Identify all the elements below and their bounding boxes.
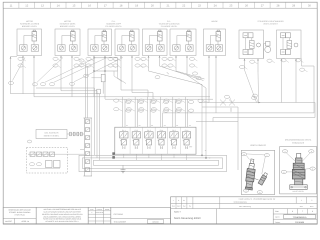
svg-text:Name 7: Name 7 [174,210,182,213]
svg-text:A6: A6 [189,124,191,127]
wire from G1 left valve down [22,56,24,94]
junction drop right [205,103,207,158]
svg-text:11: 11 [10,5,13,8]
svg-text:WINDE: WINDE [211,20,218,23]
balloon node 18 [135,57,143,61]
svg-text:T2: T2 [135,147,137,150]
svg-text:ZYLINDER VENTIL: ZYLINDER VENTIL [161,25,178,28]
label above groups at x=113.5 [105,20,122,28]
bus crossing marks [220,100,226,106]
balloon node 2 [18,64,26,68]
bank tank stubs [123,154,125,158]
balloon node 16 [113,57,121,61]
svg-text:Datum: Datum [275,221,281,224]
svg-text:P1.6: P1.6 [185,129,189,132]
bus line B6 right main [199,103,315,122]
bank section 2 riser pair [135,97,137,127]
balloon node 35 [300,68,308,72]
wire from G4 right valve down [131,56,133,93]
wire from G5 right valve down [159,56,161,67]
svg-text:VENTIL EINHEIT: VENTIL EINHEIT [263,22,278,25]
svg-text:Na: Na [189,205,191,208]
balloon node 13 [86,64,94,68]
bank section 6 riser pair [185,97,187,127]
balloon node 38 [224,95,229,98]
svg-text:1: 1 [301,199,302,202]
G4 right bend to feed bus [132,93,153,100]
bus line B5 manifold feed lower [105,98,213,100]
svg-text:12: 12 [25,5,28,8]
junction drop left [201,103,203,156]
svg-text:25: 25 [229,5,232,8]
svg-text:2: 2 [311,199,312,202]
svg-text:Dat: Dat [183,205,186,208]
svg-text:29: 29 [292,5,295,8]
svg-text:Bez. Benennung: Bez. Benennung [239,205,251,208]
svg-text:T/254036589-A: T/254036589-A [293,216,307,219]
svg-text:4x: 4x [183,199,185,202]
svg-text:3: 3 [312,210,313,213]
wire G1 auxiliary left drop [10,57,17,94]
svg-text:T2: T2 [209,157,211,160]
ruler strip [3,2,317,8]
fitting chain [67,132,84,136]
svg-text:DATUM: DATUM [97,208,103,211]
svg-text:4: 4 [246,190,247,193]
svg-text:Zust: Zust [172,205,176,208]
wire from G1 right valve down [33,56,35,97]
wire from G2 right valve down [71,56,73,97]
svg-text:MOTOR: MOTOR [26,20,34,23]
svg-text:EINHEIT VENTIL: EINHEIT VENTIL [44,135,60,138]
svg-text:POS: POS [90,208,93,211]
balloon node 31 [250,60,258,64]
bank section 4 riser pair [160,97,162,127]
bottom-left title box [3,207,36,224]
svg-text:c: c [173,200,174,202]
balloon node 8 [53,57,61,61]
diagonal wire G5-right to junction [160,66,204,81]
balloon node 10 [74,57,82,61]
svg-text:A4: A4 [164,124,166,127]
balloon node 5 [40,83,45,86]
svg-text:MASZST.: MASZST. [5,220,13,223]
svg-text:A2: A2 [139,124,141,127]
svg-text:P1.3: P1.3 [147,129,151,132]
svg-text:14: 14 [57,5,60,8]
svg-text:16: 16 [88,5,91,8]
svg-text:BREMSE VENTIL: BREMSE VENTIL [22,25,37,28]
balloon node 39 [251,96,256,99]
svg-text:30: 30 [308,5,311,8]
revision mini table [88,207,111,224]
svg-text:7: 7 [302,210,303,213]
balloon node 1 [18,57,26,61]
pilot bend wires [118,71,127,84]
mid junction tick [167,72,169,74]
pilot loop rectangle [93,58,117,72]
leader lines right cluster [203,97,258,103]
bank section 3 balloon nodes [139,99,156,112]
svg-text:22: 22 [182,5,185,8]
balloon node 19 [135,64,143,68]
wire from G9 right port down [295,59,297,103]
bus line B1 [36,87,95,89]
svg-text:T4: T4 [160,147,162,150]
svg-text:NAME: NAME [105,208,109,211]
svg-text:24: 24 [214,5,217,8]
svg-text:P1.5: P1.5 [172,129,176,132]
g8 diagonal merge [245,70,257,103]
balloon node 41 [79,59,87,63]
svg-text:P1.4: P1.4 [160,129,164,132]
svg-text:VENTIL EINSATZ: VENTIL EINSATZ [250,144,267,147]
svg-text:20: 20 [151,5,154,8]
svg-text:7: 7 [266,154,267,157]
svg-text:26: 26 [245,5,248,8]
balloon node 22 [162,57,170,61]
balloon node 30 [239,65,247,69]
svg-text:Aend: Aend [177,205,181,208]
wire from G8 left port down [244,59,246,71]
label above groups at x=67.5 [60,20,77,28]
svg-text:18: 18 [119,5,122,8]
svg-text:T1: T1 [205,149,207,152]
balloon node 42 [79,64,87,68]
svg-text:T5: T5 [173,147,175,150]
svg-text:EINBAULAGE: EINBAULAGE [292,141,305,144]
wire from G2 left valve down [60,56,62,91]
detail view A valve cartridge [241,144,274,195]
optional equipment dashed box [27,148,85,174]
bank section 6 balloon nodes [176,99,193,112]
gauge fitting [92,74,106,93]
svg-text:8: 8 [312,168,313,171]
pilot unit between G8 and G9 [264,42,271,59]
svg-text:BREMSE VENTIL: BREMSE VENTIL [60,25,75,28]
balloon node 27 [189,64,197,68]
svg-text:9: 9 [259,191,260,194]
bus line B8 lower right [163,59,314,113]
bank left port dots [113,153,115,159]
svg-text:ZYL.: ZYL. [167,20,171,23]
svg-text:HAUPT VENTIL: HAUPT VENTIL [292,190,304,193]
svg-text:Zg.Nr.: Zg.Nr. [275,216,280,219]
svg-text:T6: T6 [186,147,188,150]
bank section 1 riser pair [123,97,125,127]
bus line B7 mid [202,106,238,108]
valve group G6 telescope right [170,29,196,56]
svg-text:GETRIEBE: GETRIEBE [114,213,124,216]
balloon node 20 [141,57,149,61]
return loop outer rectangle [79,155,227,171]
svg-text:0254036: 0254036 [152,220,158,223]
svg-text:2013-04-08: 2013-04-08 [96,211,104,214]
svg-text:ZYL.: ZYL. [112,20,116,23]
svg-text:Ventil Ansteuerung: Ventil Ansteuerung [234,200,247,203]
balloon node 9 [53,64,61,68]
balloon node 3 [8,81,13,84]
wire from G7 right valve down [215,56,217,113]
valve group G4 boom hoist right [115,29,139,56]
svg-text:12: 12 [243,153,245,156]
valve group G2 swing drive [55,29,80,56]
svg-text:GEPR. 04: GEPR. 04 [21,220,29,223]
balloon node 36 [252,94,257,97]
balloon node 26 [189,57,197,61]
balloon node 6 [49,83,54,86]
svg-text:6: 6 [283,171,284,174]
loop inline fitting [97,89,101,94]
balloon node 40 [83,74,88,77]
svg-text:P1.2: P1.2 [135,129,139,132]
bus line B9 bank right [196,121,238,123]
svg-text:ACHTUNG: VOR INBETRIEBNAHME DE: ACHTUNG: VOR INBETRIEBNAHME DER ANLAGE [43,208,80,211]
pilot diagonal G3a to balloon [45,58,96,83]
label above groups at x=29.5 [20,20,40,28]
pilot diagonal G2 to balloon [37,58,63,83]
wire from G4 left valve down [120,56,122,91]
wire from G3 left valve down [93,56,95,97]
balloon node 28 [192,72,197,75]
balloon node 21 [141,64,149,68]
svg-text:15: 15 [72,5,75,8]
svg-text:20130408: 20130408 [295,221,305,224]
component label box [36,130,67,139]
balloon node 34 [295,59,303,63]
valve group G9 reducing valve right [277,30,302,59]
balloon node 17 [113,64,121,68]
svg-text:HYDR. PLAN: HYDR. PLAN [15,213,26,216]
bank section 4 balloon nodes [151,99,168,112]
diagonal wire G5-left to junction [149,71,203,85]
manifold feed wire left [85,63,87,118]
wire from G8 right port down [257,59,259,73]
tank drain symbol [121,165,126,173]
wire from G3 right valve down [104,56,106,100]
notes paragraph box [36,207,88,224]
balloon node 12 [86,57,94,61]
svg-text:T1: T1 [123,147,125,150]
bank section 5 riser pair [173,97,175,127]
return loop inner rectangle [94,160,219,165]
svg-text:17: 17 [104,5,107,8]
pilot diagonal G1 to balloon [13,58,26,81]
bank section 5 balloon nodes [164,99,181,112]
svg-text:STEUEROEL DRUCKMINDER: STEUEROEL DRUCKMINDER [257,20,284,23]
wire from G6 left valve down [175,56,177,72]
svg-text:13: 13 [41,5,44,8]
valve group G7 winch [204,29,226,56]
balloon node 7 [69,82,74,85]
svg-text:9: 9 [311,150,312,153]
svg-text:OEL KUEHLER: OEL KUEHLER [45,131,59,134]
wire from G6 right valve down [186,56,188,76]
valve bank manifold [115,124,196,154]
balloon node 24 [168,57,176,61]
valve group G5 telescope left [143,29,168,56]
bus to loop vertical 1 [94,88,96,155]
bank section 2 balloon nodes [126,99,143,112]
svg-text:Bem.: Bem. [310,205,314,208]
G4 left bend to feed bus [121,90,148,97]
svg-text:P1.1: P1.1 [122,129,126,132]
svg-text:19: 19 [135,5,138,8]
balloon node 32 [267,59,275,63]
svg-text:A1: A1 [126,124,128,127]
wire from G5 left valve down [148,56,150,72]
diagonal wire G6-right to junction [187,75,206,88]
bus to loop vertical 3 [99,94,101,161]
svg-text:MOTOR: MOTOR [64,20,72,23]
label above groups at x=270.5 [257,20,284,26]
valve group G1 track drive [17,29,42,56]
bus line B2 [61,90,97,92]
diagonal wire G6-left to junction [176,71,205,79]
balloon node 33 [281,59,289,63]
label above groups at x=169.0 [159,20,181,28]
bus line B3 [11,93,100,95]
balloon node 15 [108,64,116,68]
valve group G3 boom hoist left [88,29,112,56]
return loop middle rectangle [83,158,223,169]
svg-text:Zust.: Zust. [300,205,304,208]
svg-text:3: 3 [292,210,293,213]
junction drop to bus [201,85,203,103]
bank section 1 balloon nodes [114,99,131,112]
balloon node 14 [108,57,116,61]
svg-text:T3: T3 [148,147,150,150]
bank section 3 riser pair [148,97,150,127]
svg-text:TEILNUMMER: TEILNUMMER [114,221,127,224]
svg-text:A5: A5 [176,124,178,127]
svg-text:21: 21 [167,5,170,8]
svg-text:A3: A3 [151,124,153,127]
pilot diagonal G3b to balloon [54,58,107,83]
balloon node 23 [162,64,170,68]
svg-text:b: b [178,199,179,202]
svg-text:Ersetzt Zeichng. Nr. T/2540365: Ersetzt Zeichng. Nr. T/254036588 wegen A… [239,198,276,201]
svg-text:3: 3 [285,150,286,153]
wire from G7 left valve down [208,56,210,103]
svg-text:DRUCKBEGRENZUNG VENTIL: DRUCKBEGRENZUNG VENTIL [285,139,312,142]
detail view B pressure valve section [280,139,317,194]
svg-text:27: 27 [261,5,264,8]
bus line B4 manifold feed upper [34,96,210,98]
wire from G9 left port down [281,59,283,103]
label above groups at x=214.5 [211,20,218,23]
vertical manifold ladder [80,118,92,176]
svg-text:28: 28 [276,5,279,8]
mid junction oval [155,76,160,79]
svg-text:a: a [91,212,92,214]
balloon node 37 [198,99,203,102]
balloon node 4 [32,83,37,86]
gearbox cell [111,207,171,224]
bus terminal tick [230,108,232,112]
leader drop to detail A [237,107,239,170]
svg-text:P/T: P/T [189,146,193,149]
title block [171,197,318,224]
balloon node 25 [168,64,176,68]
balloon node 11 [74,64,82,68]
svg-text:ZYLINDER VENTIL: ZYLINDER VENTIL [105,25,122,28]
valve group G8 reducing valve left [239,30,264,59]
pilot diagonal G4 to balloon [74,58,123,82]
svg-text:Blatt: Blatt [275,210,279,213]
small port oval left [27,140,31,143]
svg-text:23: 23 [198,5,201,8]
svg-text:Norm Steuerung 4W10: Norm Steuerung 4W10 [174,217,201,220]
balloon node 29 [196,76,201,79]
bus to loop vertical 2 [96,91,98,158]
